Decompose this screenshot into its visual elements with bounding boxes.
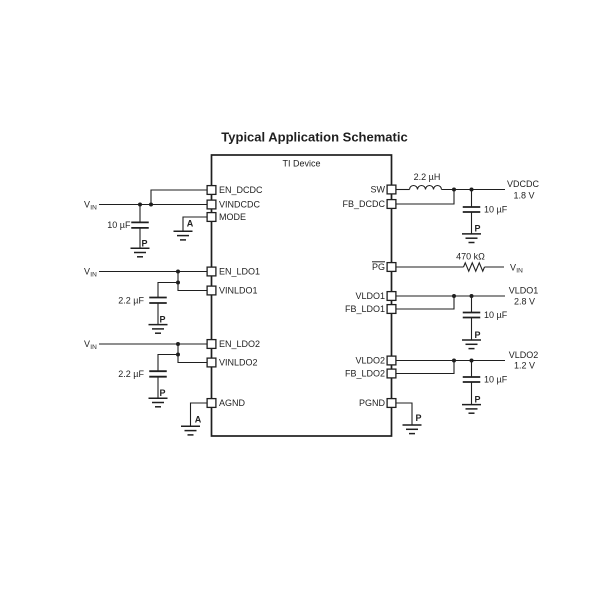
ground (P) under C3	[149, 398, 168, 407]
wire cap C6 bottom leg	[471, 382, 473, 405]
ground (P) under C4	[462, 234, 481, 243]
pin SW	[387, 185, 396, 194]
wire V_IN to VINDCDC	[99, 204, 207, 206]
node VDCDC output label	[507, 179, 540, 201]
wire FB_LDO1 feedback	[396, 296, 454, 309]
svg-text:VDCDC: VDCDC	[507, 179, 540, 189]
pin VINLDO1	[207, 286, 216, 295]
pin VINLDO2	[207, 358, 216, 367]
ground (P) under C5	[462, 340, 481, 349]
ground (P) under C1	[131, 248, 150, 257]
node V_IN (DCDC input)	[84, 200, 97, 212]
svg-text:PGND: PGND	[359, 398, 386, 408]
inductor L1 2.2 µH	[410, 186, 442, 190]
capacitor C5 10 µF	[463, 313, 481, 318]
svg-text:EN_LDO1: EN_LDO1	[219, 267, 260, 277]
wire AGND to ground	[191, 403, 208, 426]
svg-text:VINLDO1: VINLDO1	[219, 286, 258, 296]
pin MODE	[207, 213, 216, 222]
wire FB_DCDC feedback	[396, 190, 454, 205]
capacitor C3 2.2 µF	[149, 371, 167, 377]
wire to VINLDO2 pin	[178, 355, 207, 363]
junction on EN_LDO1 wire	[176, 270, 180, 274]
pin VINDCDC	[207, 200, 216, 209]
capacitor C6 10 µF	[463, 377, 481, 382]
pin FB_LDO2	[387, 369, 396, 378]
node V_IN (PG pullup)	[510, 263, 523, 275]
node VLDO2 output label	[509, 350, 539, 371]
capacitor C4 10 µF	[463, 207, 481, 212]
pin PGND	[387, 399, 396, 408]
svg-text:TI Device: TI Device	[282, 159, 320, 169]
svg-text:P: P	[475, 224, 481, 234]
capacitor C2 2.2 µF	[149, 298, 167, 304]
junction FB_LDO2 tap	[452, 359, 456, 363]
pin PG	[387, 263, 396, 272]
pin EN_DCDC	[207, 186, 216, 195]
junction C4 tap	[470, 188, 474, 192]
pin FB_LDO1	[387, 305, 396, 314]
svg-text:V: V	[510, 263, 516, 273]
wire VLDO1 to output	[396, 295, 505, 297]
svg-text:SW: SW	[371, 185, 386, 195]
wire resistor to V_IN	[485, 266, 505, 268]
pin EN_LDO1	[207, 267, 216, 276]
wire PGND to ground	[396, 403, 412, 425]
wire SW to inductor	[396, 189, 410, 191]
wire PG to resistor	[396, 266, 464, 268]
wire EN_LDO2 to VINLDO2 branch	[177, 344, 179, 355]
wire cap C6 top leg	[471, 361, 473, 378]
svg-text:10 µF: 10 µF	[484, 204, 508, 214]
svg-text:P: P	[416, 413, 422, 423]
ground (P) under C6	[462, 405, 481, 414]
junction on EN_LDO2 wire	[176, 342, 180, 346]
svg-text:470 kΩ: 470 kΩ	[456, 252, 485, 262]
svg-text:V: V	[84, 200, 90, 210]
svg-text:IN: IN	[90, 344, 97, 351]
wire V_IN to EN_LDO1	[99, 271, 207, 273]
wire cap C1 bottom leg	[139, 228, 141, 248]
svg-text:V: V	[84, 267, 90, 277]
wire V_IN to EN_LDO2	[99, 343, 207, 345]
svg-text:MODE: MODE	[219, 212, 246, 222]
svg-text:P: P	[160, 314, 166, 324]
wire cap C1 top leg	[139, 205, 141, 223]
svg-text:2.2 µF: 2.2 µF	[118, 296, 144, 306]
op-amp U1 (TI Device chip body)	[212, 155, 392, 436]
svg-text:VLDO2: VLDO2	[509, 350, 539, 360]
wire to capacitor C2	[158, 283, 178, 298]
svg-text:EN_LDO2: EN_LDO2	[219, 339, 260, 349]
wire FB_LDO2 feedback	[396, 361, 454, 374]
pin AGND	[207, 399, 216, 408]
pin VLDO1	[387, 292, 396, 301]
svg-text:P: P	[475, 330, 481, 340]
svg-text:Typical Application Schematic: Typical Application Schematic	[221, 130, 407, 145]
svg-text:2.2 µF: 2.2 µF	[118, 369, 144, 379]
svg-text:10 µF: 10 µF	[107, 220, 131, 230]
capacitor C1 10 µF	[131, 222, 149, 228]
svg-text:VINLDO2: VINLDO2	[219, 358, 258, 368]
svg-text:VINDCDC: VINDCDC	[219, 200, 261, 210]
svg-text:FB_LDO2: FB_LDO2	[345, 369, 385, 379]
svg-text:1.2 V: 1.2 V	[514, 361, 535, 371]
junction VINLDO2 branch	[176, 353, 180, 357]
svg-text:10 µF: 10 µF	[484, 375, 508, 385]
pin VLDO2	[387, 356, 396, 365]
junction on V_IN wire (cap branch)	[138, 203, 142, 207]
wire EN_LDO1 to VINLDO1 branch	[177, 272, 179, 283]
svg-text:V: V	[84, 339, 90, 349]
svg-text:PG: PG	[372, 262, 385, 272]
svg-text:P: P	[475, 395, 481, 405]
node VLDO1 output label	[509, 286, 539, 307]
pin FB_DCDC	[387, 200, 396, 209]
svg-text:2.8 V: 2.8 V	[514, 296, 535, 306]
svg-text:A: A	[195, 415, 202, 425]
wire cap C5 top leg	[471, 296, 473, 313]
junction VINLDO1 branch	[176, 281, 180, 285]
svg-text:P: P	[142, 239, 148, 249]
wire MODE stub	[183, 217, 207, 231]
wire VLDO2 to output	[396, 360, 505, 362]
svg-text:VLDO2: VLDO2	[355, 356, 385, 366]
node V_IN (LDO1 input)	[84, 267, 97, 279]
junction C6 tap	[470, 359, 474, 363]
svg-text:IN: IN	[90, 272, 97, 279]
svg-text:IN: IN	[90, 205, 97, 212]
ground (A) at MODE	[174, 231, 193, 240]
svg-text:10 µF: 10 µF	[484, 310, 508, 320]
ground (A) at AGND	[181, 426, 200, 435]
ground (P) at PGND	[403, 425, 422, 434]
wire cap C5 bottom leg	[471, 318, 473, 341]
pin label PG (active low)	[372, 262, 385, 272]
wire cap C2 bottom leg	[157, 303, 159, 325]
junction FB_LDO1 tap	[452, 294, 456, 298]
svg-text:VLDO1: VLDO1	[355, 291, 385, 301]
pin EN_LDO2	[207, 340, 216, 349]
wire cap C4 bottom leg	[471, 212, 473, 234]
junction on V_IN wire (EN branch)	[149, 203, 153, 207]
svg-text:FB_LDO1: FB_LDO1	[345, 304, 385, 314]
wire to VINLDO1 pin	[178, 283, 207, 291]
wire to capacitor C3	[158, 355, 178, 372]
svg-text:FB_DCDC: FB_DCDC	[342, 199, 385, 209]
svg-text:EN_DCDC: EN_DCDC	[219, 185, 263, 195]
svg-text:2.2 µH: 2.2 µH	[414, 172, 441, 182]
svg-text:VLDO1: VLDO1	[509, 286, 539, 296]
svg-text:A: A	[187, 219, 194, 229]
svg-text:AGND: AGND	[219, 398, 246, 408]
junction C5 tap	[470, 294, 474, 298]
junction FB_DCDC tap	[452, 188, 456, 192]
wire EN_DCDC branch	[151, 190, 207, 205]
ground (P) under C2	[149, 325, 168, 334]
resistor R1 470 kΩ	[464, 263, 485, 271]
wire cap C3 bottom leg	[157, 377, 159, 399]
svg-text:IN: IN	[516, 268, 523, 275]
wire inductor to VDCDC output	[442, 189, 506, 191]
node V_IN (LDO2 input)	[84, 339, 97, 351]
svg-text:P: P	[160, 388, 166, 398]
wire cap C4 top leg	[471, 190, 473, 208]
svg-text:1.8 V: 1.8 V	[513, 190, 534, 200]
